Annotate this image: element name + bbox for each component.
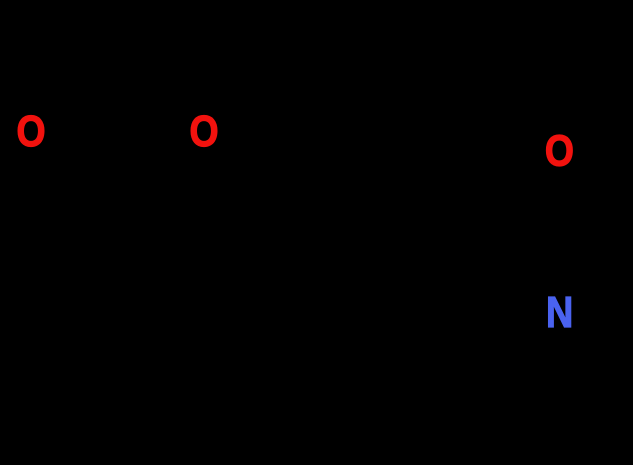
bond C3-methyl xyxy=(31,460,88,465)
bond C2-C3 xyxy=(88,165,111,264)
bond P4-P3 xyxy=(312,347,396,392)
svg-text:O: O xyxy=(16,106,45,155)
bond C8a-C8 xyxy=(291,132,378,182)
bond N-P5 xyxy=(480,323,537,348)
double bond C2=O1 carbonyl line 1 xyxy=(52,147,108,170)
faded mirrored reflection of the molecule xyxy=(0,391,633,465)
bond C8-C7 xyxy=(377,132,464,182)
double bond C3=C4 main line xyxy=(88,443,140,465)
svg-text:O: O xyxy=(189,107,218,156)
double bond C2x=N imidate line 1 xyxy=(569,228,613,288)
bond P4-P3 xyxy=(312,399,396,444)
bond P2-P1 xyxy=(140,399,227,443)
double bond C3=C4 inner line xyxy=(107,463,143,465)
bond C3-methyl xyxy=(31,263,88,331)
svg-text:N: N xyxy=(546,287,573,336)
svg-text:N: N xyxy=(546,455,573,465)
double bond C3=C4 main line xyxy=(88,263,140,348)
bond C7-O3 xyxy=(464,159,536,182)
double bond C3=C4 inner line xyxy=(107,269,143,329)
bond O3-C2x xyxy=(574,171,618,232)
svg-text:O: O xyxy=(545,126,574,175)
bond P5-P4 xyxy=(396,399,480,443)
bond P3-P2 xyxy=(227,399,312,444)
bond O2-C8a xyxy=(226,144,291,182)
bond P2-P1 xyxy=(140,348,227,392)
bond N-P5 xyxy=(480,443,537,465)
bond C2-O2 ester xyxy=(111,140,181,165)
bond P3-P2 xyxy=(227,347,312,392)
double bond C2x=N imidate line 2 xyxy=(580,236,624,296)
double bond C2=O1 carbonyl line 2 xyxy=(57,135,113,158)
bond P5-P4 xyxy=(396,348,480,392)
